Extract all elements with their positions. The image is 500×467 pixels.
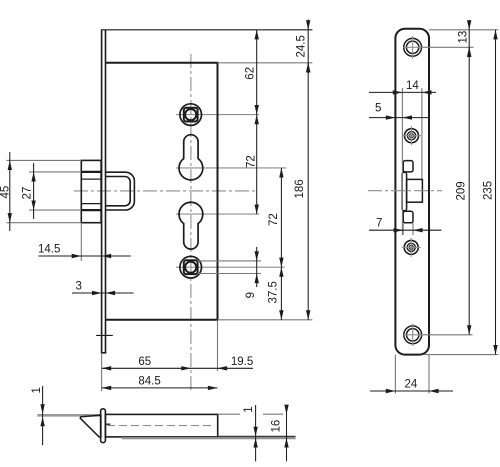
svg-text:1: 1 <box>243 406 255 412</box>
upper keyhole (euro profile, stem up) <box>179 135 203 180</box>
follower centerline horizontal <box>176 114 259 116</box>
bottom wall line (1mm) <box>122 437 296 439</box>
dimension 37.5 <box>268 267 284 320</box>
vertical centerline of cylinder axis <box>190 54 192 390</box>
latch cutout strip <box>402 172 406 211</box>
svg-text:209: 209 <box>455 181 467 200</box>
dimension 3 <box>72 281 134 296</box>
latch head cutout <box>407 179 423 202</box>
lower keyhole centerline horizontal <box>176 213 259 215</box>
svg-text:14.5: 14.5 <box>38 244 60 256</box>
extension line plate bottom right <box>424 354 498 356</box>
svg-text:24.5: 24.5 <box>296 35 308 57</box>
horizontal case centerline <box>74 190 258 192</box>
extension line plate top right <box>429 29 498 31</box>
follower (handle hub) lower <box>180 256 202 278</box>
latch body profile <box>105 414 217 437</box>
faceplate plate outline <box>395 29 429 355</box>
svg-text:1: 1 <box>31 387 43 393</box>
extension lines for 7 <box>402 223 404 235</box>
svg-text:84.5: 84.5 <box>138 375 160 387</box>
latch top edge extension right for 16 <box>218 413 240 415</box>
svg-text:37.5: 37.5 <box>268 281 280 303</box>
extension line bottom screw center right <box>422 334 473 336</box>
svg-text:5: 5 <box>375 103 381 115</box>
extension line for 14.5 <box>80 223 82 261</box>
dimension 16 <box>270 405 288 462</box>
follower (handle hub) upper <box>180 104 202 126</box>
svg-text:65: 65 <box>138 356 151 368</box>
bottom screw tick on faceplate <box>96 334 113 336</box>
svg-text:19.5: 19.5 <box>231 356 253 368</box>
extension line top screw center right <box>422 46 474 48</box>
svg-text:16: 16 <box>270 420 282 433</box>
latch cutout bottom square <box>403 211 413 223</box>
latch rest tick <box>106 423 111 425</box>
faceplate profile bar <box>101 409 106 443</box>
bottom screw hole <box>403 324 422 346</box>
case bottom line extension <box>218 319 313 321</box>
latch bevel wedge <box>80 415 101 437</box>
svg-text:45: 45 <box>0 186 12 199</box>
svg-text:7: 7 <box>376 218 382 230</box>
svg-text:235: 235 <box>482 181 494 200</box>
faceplate top line extended right <box>101 29 312 31</box>
latch bolt front view <box>81 160 101 222</box>
dimension 13 <box>458 20 472 58</box>
faceplate bar <box>101 30 107 353</box>
dimension 62 <box>244 30 259 115</box>
dimension 72 lower <box>268 168 284 267</box>
dimension 9 <box>245 247 259 298</box>
extension lines latch 45 <box>7 159 82 161</box>
lock case outline <box>106 63 218 320</box>
latch cutout top square <box>403 161 413 172</box>
svg-text:14: 14 <box>406 80 419 92</box>
lower middle screw <box>402 238 421 257</box>
dimension 27 <box>21 163 36 219</box>
latch center dash line <box>107 425 215 427</box>
dimension 5 <box>369 103 429 120</box>
faceplate centerline horizontal <box>368 190 442 192</box>
extension lines for 14 <box>401 88 403 235</box>
svg-text:13: 13 <box>458 31 470 44</box>
dimension 7 <box>369 218 441 233</box>
faceplate left edge extension down <box>101 353 103 391</box>
upper middle screw <box>402 126 421 145</box>
dimension 45 <box>0 152 12 231</box>
dimension 24.5 <box>296 20 311 74</box>
lower follower centerline horizontal <box>176 266 285 268</box>
dimension 1 right <box>243 405 258 461</box>
dimension 65 and 19.5 <box>102 356 254 371</box>
svg-text:72: 72 <box>268 213 280 226</box>
dimension 235 <box>482 30 497 355</box>
lower keyhole (euro profile, stem down) <box>179 202 203 249</box>
svg-text:72: 72 <box>245 155 257 168</box>
case top line extension <box>218 62 313 64</box>
dimension 84.5 <box>102 375 218 390</box>
extension lines latch 27 <box>29 171 81 173</box>
svg-text:186: 186 <box>294 179 306 198</box>
dimension 72 upper <box>245 115 259 215</box>
svg-text:24: 24 <box>405 379 418 391</box>
dimension 1 left <box>31 386 45 445</box>
top screw hole <box>403 36 422 59</box>
latch bottom edge extension right <box>218 435 296 437</box>
dimension 14 <box>369 80 436 95</box>
dimension 14.5 <box>38 244 131 259</box>
dimension 24 <box>370 379 453 394</box>
dimension 209 <box>455 47 471 335</box>
svg-text:9: 9 <box>245 292 257 298</box>
svg-text:3: 3 <box>76 281 82 293</box>
dimension 186 <box>294 63 310 320</box>
latch guide loop bracket <box>106 172 135 210</box>
case right edge extension down <box>217 320 219 371</box>
svg-text:62: 62 <box>244 67 256 80</box>
upper keyhole centerline horizontal <box>176 167 286 169</box>
svg-text:27: 27 <box>21 187 33 200</box>
strike reference line left (1mm wall) <box>37 414 100 417</box>
lower follower square edge extensions for 9 <box>198 260 262 262</box>
extension lines for 24 <box>394 355 396 394</box>
